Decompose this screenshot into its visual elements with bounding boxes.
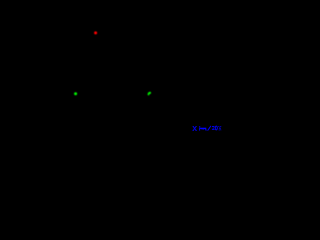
green LED dot left <box>74 92 77 95</box>
green LED blob right (comma shaped) <box>148 92 152 96</box>
glyph cluster end <box>217 125 220 128</box>
glyph word (um-like) <box>199 126 200 127</box>
glyph 0 <box>215 126 217 130</box>
red LED dot <box>94 31 97 34</box>
blue annotation text <box>193 126 222 131</box>
glyph 2 <box>212 125 214 128</box>
glyph slash <box>208 126 211 131</box>
glyph X <box>193 126 194 127</box>
